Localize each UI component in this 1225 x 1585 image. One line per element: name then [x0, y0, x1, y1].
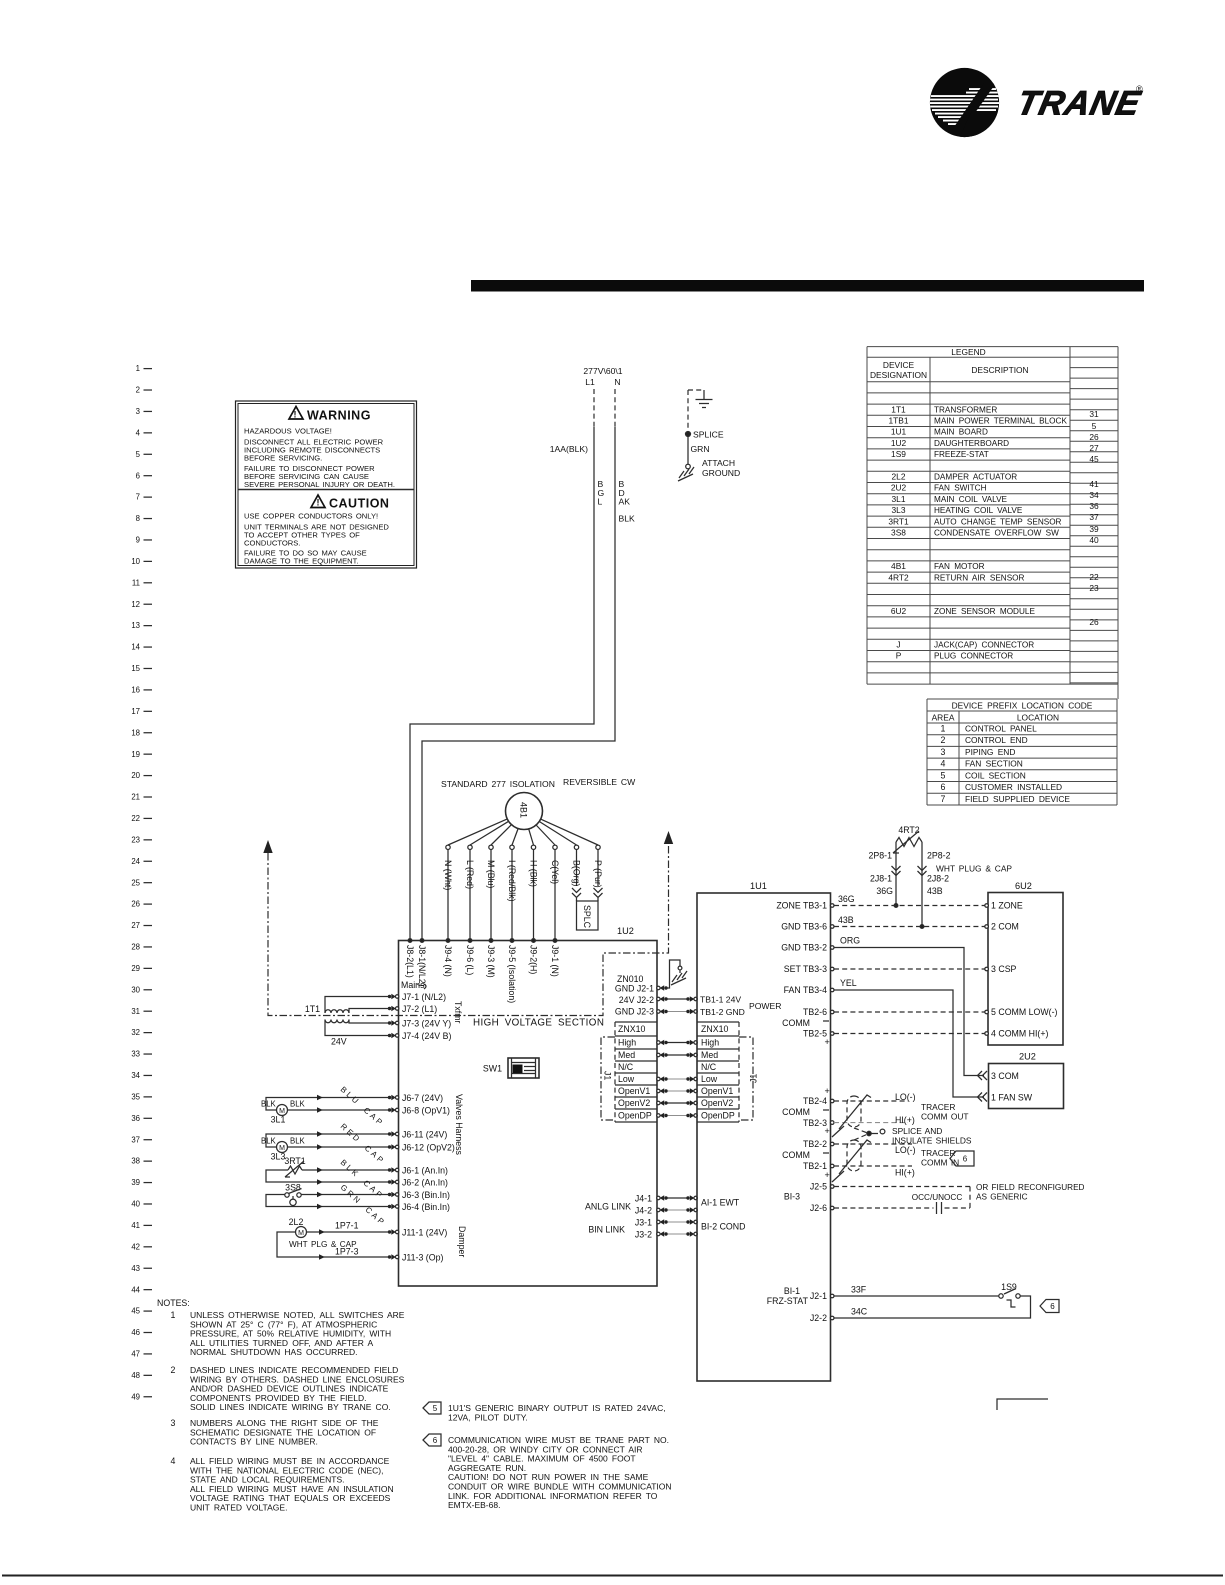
- svg-text:23: 23: [1089, 583, 1099, 593]
- svg-text:High: High: [618, 1038, 636, 1048]
- svg-text:4RT2: 4RT2: [888, 572, 909, 582]
- svg-text:43B: 43B: [838, 915, 854, 925]
- wire ORG TB3-2 to 2U2: [834, 936, 987, 1081]
- svg-text:PIPING END: PIPING END: [965, 747, 1015, 757]
- svg-text:32: 32: [131, 1028, 140, 1037]
- svg-text:BLK: BLK: [261, 1100, 277, 1109]
- svg-text:1TB1: 1TB1: [888, 416, 908, 426]
- svg-text:6: 6: [941, 782, 946, 792]
- svg-text:TB2-1: TB2-1: [803, 1161, 827, 1171]
- svg-text:HIGH VOLTAGE SECTION: HIGH VOLTAGE SECTION: [473, 1018, 604, 1029]
- svg-text:+: +: [825, 1086, 830, 1096]
- svg-text:J9-4 (N): J9-4 (N): [443, 945, 453, 977]
- svg-text:2L2: 2L2: [289, 1217, 304, 1227]
- wire YEL TB3-4 to 2U2: [834, 978, 987, 1102]
- svg-text:CUSTOMER INSTALLED: CUSTOMER INSTALLED: [965, 782, 1062, 792]
- J1 bracket right: [739, 1037, 759, 1120]
- svg-text:2: 2: [136, 386, 140, 395]
- svg-text:4 COMM HI(+): 4 COMM HI(+): [991, 1029, 1048, 1039]
- svg-text:J9-2(H): J9-2(H): [528, 945, 538, 974]
- svg-text:OR FIELD RECONFIGURED: OR FIELD RECONFIGURED: [976, 1183, 1085, 1192]
- svg-text:1: 1: [171, 1310, 176, 1320]
- svg-text:43: 43: [131, 1264, 140, 1273]
- svg-text:CONTROL PANEL: CONTROL PANEL: [965, 724, 1037, 734]
- svg-text:H (Blk): H (Blk): [528, 860, 538, 887]
- svg-text:HEATING COIL VALVE: HEATING COIL VALVE: [934, 506, 1023, 515]
- svg-text:NOTES:: NOTES:: [157, 1298, 190, 1308]
- svg-text:OpenV1: OpenV1: [618, 1086, 650, 1096]
- svg-text:40: 40: [1089, 535, 1099, 545]
- wire ZNX10 Med: [657, 1052, 698, 1057]
- svg-text:WHT PLUG & CAP: WHT PLUG & CAP: [936, 864, 1012, 874]
- main coil valve 3L1: [261, 1095, 390, 1125]
- svg-text:J6-2 (An.In): J6-2 (An.In): [402, 1177, 448, 1187]
- ground at J2-1: [657, 960, 687, 991]
- svg-text:26: 26: [1089, 617, 1099, 627]
- svg-text:DAMPER ACTUATOR: DAMPER ACTUATOR: [934, 473, 1017, 482]
- splice node: [686, 430, 724, 469]
- svg-text:37: 37: [131, 1135, 140, 1144]
- svg-text:J6-11 (24V): J6-11 (24V): [402, 1129, 447, 1139]
- svg-text:3L1: 3L1: [892, 494, 906, 504]
- wire J2-2 to TB1-1: [657, 996, 698, 1001]
- svg-text:Med: Med: [701, 1050, 718, 1060]
- svg-text:6: 6: [136, 471, 140, 480]
- svg-text:HAZARDOUS VOLTAGE!: HAZARDOUS VOLTAGE!: [244, 427, 332, 436]
- svg-text:6U2: 6U2: [891, 606, 907, 616]
- svg-text:12: 12: [131, 600, 140, 609]
- svg-text:43B: 43B: [927, 886, 943, 896]
- svg-text:FRZ-STAT: FRZ-STAT: [767, 1296, 809, 1306]
- svg-text:36G: 36G: [876, 886, 893, 896]
- svg-text:4: 4: [171, 1456, 176, 1466]
- legend table: [867, 347, 1118, 699]
- svg-text:46: 46: [131, 1328, 140, 1337]
- svg-text:L1: L1: [585, 377, 595, 387]
- wire label GRN CAP: [339, 1183, 388, 1228]
- svg-text:4: 4: [136, 428, 141, 437]
- svg-text:AUTO CHANGE TEMP SENSOR: AUTO CHANGE TEMP SENSOR: [934, 517, 1062, 526]
- svg-text:3: 3: [941, 747, 946, 757]
- svg-text:DAMAGE TO THE EQUIPMENT.: DAMAGE TO THE EQUIPMENT.: [244, 557, 359, 566]
- svg-text:CAUTION: CAUTION: [329, 497, 389, 511]
- damper actuator 2L2: [277, 1217, 390, 1260]
- svg-text:2U2: 2U2: [891, 483, 907, 493]
- svg-text:1T1: 1T1: [891, 404, 906, 414]
- svg-text:NORMAL SHUTDOWN HAS OCCURRED.: NORMAL SHUTDOWN HAS OCCURRED.: [190, 1347, 358, 1357]
- svg-text:OpenDP: OpenDP: [618, 1111, 652, 1121]
- svg-text:J6-1 (An.In): J6-1 (An.In): [402, 1165, 448, 1175]
- svg-text:SEVERE PERSONAL INJURY OR DEAT: SEVERE PERSONAL INJURY OR DEATH.: [244, 480, 395, 489]
- svg-text:23: 23: [131, 835, 140, 844]
- wire ZNX10 OpenDP: [657, 1113, 698, 1118]
- svg-text:9: 9: [136, 536, 140, 545]
- svg-text:3: 3: [171, 1418, 176, 1428]
- svg-text:4B1: 4B1: [891, 561, 906, 571]
- svg-text:6: 6: [433, 1436, 438, 1445]
- 1U2 right labels: [585, 974, 654, 1239]
- wire ZNX10 OpenV2: [657, 1100, 698, 1105]
- svg-text:JACK(CAP) CONNECTOR: JACK(CAP) CONNECTOR: [934, 641, 1034, 650]
- svg-text:2: 2: [941, 735, 946, 745]
- svg-text:TRACER: TRACER: [921, 1102, 955, 1112]
- svg-text:21: 21: [131, 793, 140, 802]
- wire ZNX10 OpenV1: [657, 1088, 698, 1093]
- svg-text:CONTROL END: CONTROL END: [965, 735, 1028, 745]
- svg-text:J4-1: J4-1: [635, 1193, 652, 1203]
- svg-text:1S9: 1S9: [1001, 1282, 1017, 1292]
- wire TB2-5 to 6U2 pin4: [834, 1033, 985, 1035]
- svg-text:+: +: [825, 1170, 830, 1180]
- svg-text:GND TB3-2: GND TB3-2: [781, 943, 827, 953]
- svg-text:LEGEND: LEGEND: [951, 347, 985, 357]
- wire TB2-6 to 6U2 pin5: [834, 1011, 985, 1013]
- svg-text:SOLID LINES INDICATE WIRING BY: SOLID LINES INDICATE WIRING BY TRANE CO.: [190, 1402, 391, 1412]
- svg-text:J6-8 (OpV1): J6-8 (OpV1): [402, 1105, 450, 1115]
- svg-text:J3-1: J3-1: [635, 1217, 652, 1227]
- svg-text:4B1: 4B1: [519, 802, 529, 818]
- svg-text:Med: Med: [618, 1050, 635, 1060]
- svg-text:1P7-1: 1P7-1: [335, 1221, 359, 1231]
- line number ruler: [131, 364, 152, 1401]
- svg-text:J9-3 (M): J9-3 (M): [486, 945, 496, 978]
- svg-text:16: 16: [131, 686, 140, 695]
- svg-text:15: 15: [131, 664, 140, 673]
- svg-text:BLK: BLK: [290, 1100, 306, 1109]
- svg-text:REVERSIBLE CW: REVERSIBLE CW: [563, 777, 636, 787]
- fan motor 4B1: [441, 777, 636, 830]
- ground splice branch: [688, 390, 704, 432]
- svg-text:DESIGNATION: DESIGNATION: [870, 370, 927, 380]
- J1 bracket left: [601, 1037, 615, 1120]
- title bar: [471, 280, 1144, 292]
- wire J4-1 to AI-1: [657, 1195, 698, 1200]
- svg-text:36: 36: [131, 1114, 140, 1123]
- svg-text:TB2-5: TB2-5: [803, 1029, 827, 1039]
- svg-text:COMM: COMM: [782, 1107, 810, 1117]
- svg-text:33: 33: [131, 1050, 140, 1059]
- svg-text:FAN MOTOR: FAN MOTOR: [934, 562, 985, 571]
- svg-text:COMM OUT: COMM OUT: [921, 1112, 969, 1122]
- svg-text:5 COMM LOW(-): 5 COMM LOW(-): [991, 1007, 1058, 1017]
- svg-text:OpenV2: OpenV2: [618, 1098, 650, 1108]
- svg-text:M: M: [298, 1230, 304, 1237]
- svg-text:1: 1: [941, 724, 946, 734]
- daughterboard 1U2: [399, 926, 658, 1286]
- svg-text:31: 31: [131, 1007, 140, 1016]
- svg-text:J7-4 (24V B): J7-4 (24V B): [402, 1031, 451, 1041]
- wire label BLU CAP: [339, 1085, 386, 1129]
- svg-text:39: 39: [131, 1178, 140, 1187]
- svg-text:J6-7 (24V): J6-7 (24V): [402, 1093, 443, 1103]
- svg-text:6: 6: [1050, 1302, 1055, 1311]
- svg-text:COIL SECTION: COIL SECTION: [965, 770, 1026, 780]
- svg-text:3 CSP: 3 CSP: [991, 964, 1017, 974]
- svg-text:J6-3 (Bin.In): J6-3 (Bin.In): [402, 1190, 450, 1200]
- svg-text:®: ®: [1136, 84, 1143, 94]
- svg-text:CONDENSATE OVERFLOW SW: CONDENSATE OVERFLOW SW: [934, 529, 1059, 538]
- svg-text:5: 5: [136, 450, 141, 459]
- svg-text:GND TB3-6: GND TB3-6: [781, 922, 827, 932]
- svg-text:!: !: [294, 410, 297, 420]
- svg-text:28: 28: [131, 943, 140, 952]
- svg-text:BI-3: BI-3: [784, 1192, 800, 1202]
- svg-text:19: 19: [131, 750, 140, 759]
- svg-text:COMM: COMM: [782, 1150, 810, 1160]
- svg-text:High: High: [701, 1038, 719, 1048]
- svg-text:UNIT RATED VOLTAGE.: UNIT RATED VOLTAGE.: [190, 1503, 287, 1513]
- svg-text:TRANE: TRANE: [1014, 85, 1144, 123]
- svg-text:Low: Low: [618, 1074, 635, 1084]
- svg-text:47: 47: [131, 1350, 140, 1359]
- svg-text:+: +: [825, 1037, 830, 1047]
- svg-text:MAIN BOARD: MAIN BOARD: [934, 428, 988, 437]
- svg-text:J7-2 (L1): J7-2 (L1): [402, 1004, 437, 1014]
- TRANE logo: [929, 68, 1144, 140]
- svg-text:N/C: N/C: [618, 1062, 634, 1072]
- main board 1U1: [697, 881, 831, 1381]
- svg-text:TB2-4: TB2-4: [803, 1096, 827, 1106]
- svg-text:17: 17: [131, 707, 140, 716]
- svg-text:J2-1: J2-1: [810, 1291, 827, 1301]
- svg-text:BEFORE SERVICING.: BEFORE SERVICING.: [244, 454, 322, 463]
- fan switch 2U2: [989, 1052, 1064, 1109]
- svg-text:LOCATION: LOCATION: [1017, 713, 1059, 723]
- svg-text:24: 24: [131, 857, 140, 866]
- tracer comm in shield: [832, 1140, 974, 1182]
- svg-text:FAN SWITCH: FAN SWITCH: [934, 484, 987, 493]
- wire SET TB3-3 to 6U2 pin3: [834, 968, 985, 970]
- svg-text:OpenV1: OpenV1: [701, 1086, 733, 1096]
- svg-text:J2-2: J2-2: [810, 1313, 827, 1323]
- svg-text:20: 20: [131, 771, 140, 780]
- svg-text:DEVICE: DEVICE: [883, 360, 915, 370]
- svg-text:SPLC: SPLC: [582, 905, 592, 929]
- svg-text:5: 5: [433, 1404, 438, 1413]
- dip switch SW1: [483, 1058, 539, 1078]
- heating coil valve 3L3: [261, 1131, 390, 1161]
- svg-text:ZN010: ZN010: [617, 974, 644, 984]
- svg-text:+: +: [825, 1126, 830, 1136]
- svg-text:4: 4: [941, 759, 946, 769]
- svg-text:J6-4 (Bin.In): J6-4 (Bin.In): [402, 1202, 450, 1212]
- svg-text:1S9: 1S9: [891, 449, 906, 459]
- wire J3-2 to BI-2: [657, 1231, 698, 1236]
- svg-text:J4-2: J4-2: [635, 1205, 652, 1215]
- svg-text:J7-1 (N/L2): J7-1 (N/L2): [402, 992, 446, 1002]
- svg-text:33F: 33F: [851, 1285, 867, 1295]
- svg-text:J1: J1: [749, 1074, 759, 1083]
- svg-text:TRACER: TRACER: [921, 1148, 955, 1158]
- svg-text:45: 45: [1089, 454, 1099, 464]
- svg-text:25: 25: [131, 878, 140, 887]
- net L1 power feed: [410, 366, 623, 938]
- svg-text:8: 8: [136, 514, 140, 523]
- svg-text:ZNX10: ZNX10: [618, 1024, 645, 1034]
- 1U2 left pin labels: [388, 980, 467, 1262]
- svg-text:WARNING: WARNING: [307, 409, 371, 423]
- svg-text:24V J2-2: 24V J2-2: [619, 995, 654, 1005]
- svg-text:ZONE SENSOR MODULE: ZONE SENSOR MODULE: [934, 607, 1035, 616]
- svg-text:J9-5 (Isolation): J9-5 (Isolation): [507, 945, 517, 1003]
- svg-text:P (Pur): P (Pur): [593, 860, 603, 888]
- svg-text:P: P: [896, 651, 902, 661]
- svg-text:1U2: 1U2: [891, 438, 907, 448]
- connector ZNX10 on 1U1: [697, 1022, 739, 1122]
- svg-text:40: 40: [131, 1200, 140, 1209]
- svg-text:USE COPPER CONDUCTORS ONLY!: USE COPPER CONDUCTORS ONLY!: [244, 512, 378, 521]
- net N power feed: [422, 389, 615, 938]
- svg-text:29: 29: [131, 964, 140, 973]
- svg-text:J3-2: J3-2: [635, 1229, 652, 1239]
- svg-text:L: L: [598, 497, 603, 507]
- svg-text:J9-1 (N): J9-1 (N): [550, 945, 560, 977]
- svg-text:1 ZONE: 1 ZONE: [991, 901, 1023, 911]
- svg-text:GND J2-1: GND J2-1: [615, 984, 654, 994]
- transformer 1T1: [305, 997, 390, 1047]
- svg-text:ATTACH: ATTACH: [702, 458, 735, 468]
- wire label RED CAP: [339, 1122, 387, 1167]
- svg-text:POWER: POWER: [749, 1001, 781, 1011]
- svg-text:3RT1: 3RT1: [888, 516, 909, 526]
- 1U1 left labels: [700, 994, 781, 1231]
- svg-text:277V\60\1: 277V\60\1: [583, 366, 622, 376]
- svg-text:M (Blu): M (Blu): [486, 860, 496, 888]
- svg-text:AK: AK: [619, 497, 631, 507]
- freeze stat 1S9 circuit: [834, 1282, 1059, 1318]
- caution label W2: [244, 495, 389, 566]
- svg-text:BIN LINK: BIN LINK: [588, 1225, 625, 1235]
- svg-text:3: 3: [136, 407, 140, 416]
- svg-text:31: 31: [1089, 409, 1099, 419]
- svg-text:LO(-): LO(-): [895, 1145, 916, 1155]
- svg-text:CONDUCTORS.: CONDUCTORS.: [244, 539, 300, 548]
- wire TB3-6 to 6U2 pin2: [834, 915, 985, 927]
- svg-text:J2-6: J2-6: [810, 1203, 827, 1213]
- svg-text:26: 26: [1089, 432, 1099, 442]
- svg-text:2P8-2: 2P8-2: [927, 851, 951, 861]
- svg-text:7: 7: [941, 794, 946, 804]
- svg-text:6U2: 6U2: [1015, 881, 1032, 891]
- svg-text:1U2: 1U2: [617, 926, 634, 936]
- svg-text:ZNX10: ZNX10: [701, 1024, 728, 1034]
- svg-text:37: 37: [1089, 512, 1099, 522]
- svg-text:GROUND: GROUND: [702, 468, 740, 478]
- wire ZNX10 High: [657, 1040, 698, 1045]
- svg-text:14: 14: [131, 643, 140, 652]
- svg-text:2 COM: 2 COM: [991, 922, 1019, 932]
- svg-text:PLUG CONNECTOR: PLUG CONNECTOR: [934, 652, 1013, 661]
- svg-text:30: 30: [131, 985, 140, 994]
- svg-text:41: 41: [1089, 479, 1099, 489]
- svg-text:ANLG LINK: ANLG LINK: [585, 1202, 631, 1212]
- svg-text:24V: 24V: [331, 1037, 347, 1047]
- svg-text:Damper: Damper: [457, 1226, 467, 1257]
- svg-text:STANDARD 277 ISOLATION: STANDARD 277 ISOLATION: [441, 779, 555, 789]
- svg-text:GND J2-3: GND J2-3: [615, 1007, 654, 1017]
- svg-text:OCC/UNOCC: OCC/UNOCC: [912, 1193, 963, 1202]
- svg-text:ORG: ORG: [840, 936, 860, 946]
- svg-text:J1: J1: [603, 1071, 613, 1080]
- svg-text:AREA: AREA: [932, 713, 955, 723]
- svg-text:1: 1: [136, 364, 140, 373]
- svg-text:3S8: 3S8: [891, 528, 906, 538]
- svg-text:TB1-1 24V: TB1-1 24V: [700, 994, 741, 1004]
- svg-text:BLK: BLK: [619, 514, 636, 524]
- svg-text:J11-1 (24V): J11-1 (24V): [402, 1227, 447, 1237]
- svg-text:DEVICE PREFIX LOCATION CODE: DEVICE PREFIX LOCATION CODE: [952, 701, 1093, 711]
- svg-text:OpenV2: OpenV2: [701, 1098, 733, 1108]
- svg-text:44: 44: [131, 1285, 140, 1294]
- occ/unocc input: [834, 1183, 1085, 1214]
- svg-text:L (Red): L (Red): [465, 860, 475, 889]
- svg-text:42: 42: [131, 1242, 140, 1251]
- svg-text:26: 26: [131, 900, 140, 909]
- wire color codes: [598, 479, 636, 524]
- svg-text:TB2-6: TB2-6: [803, 1007, 827, 1017]
- svg-text:BLK: BLK: [290, 1137, 306, 1146]
- high voltage section boundary: [263, 831, 673, 1016]
- bottom border: [2, 1575, 1223, 1577]
- svg-text:3S8: 3S8: [285, 1183, 301, 1193]
- motor lead wires: [443, 819, 603, 938]
- svg-text:6: 6: [963, 1155, 968, 1164]
- svg-text:SPLICE: SPLICE: [693, 430, 724, 440]
- svg-text:CONTACTS BY LINE NUMBER.: CONTACTS BY LINE NUMBER.: [190, 1437, 318, 1447]
- svg-text:OpenDP: OpenDP: [701, 1111, 735, 1121]
- wire TB3-1 to 6U2 pin1: [834, 894, 985, 906]
- svg-text:COMM: COMM: [782, 1018, 810, 1028]
- svg-text:EMTX-EB-68.: EMTX-EB-68.: [448, 1500, 500, 1510]
- 1U1 right pins: [776, 901, 834, 1323]
- svg-text:FAN TB3-4: FAN TB3-4: [784, 985, 827, 995]
- attach ground: [678, 458, 740, 481]
- svg-text:SET TB3-3: SET TB3-3: [784, 964, 827, 974]
- svg-text:11: 11: [132, 578, 140, 587]
- condensate overflow switch 3S8: [266, 1183, 390, 1210]
- connector ZNX10 on 1U2: [615, 1022, 657, 1122]
- svg-text:I (Red/Blk): I (Red/Blk): [507, 860, 517, 902]
- svg-text:48: 48: [131, 1371, 140, 1380]
- svg-text:HI(+): HI(+): [895, 1168, 915, 1178]
- svg-text:2U2: 2U2: [1019, 1052, 1036, 1062]
- svg-text:N (Wht): N (Wht): [443, 860, 453, 890]
- svg-text:18: 18: [131, 728, 140, 737]
- svg-text:2P8-1: 2P8-1: [869, 851, 893, 861]
- svg-text:22: 22: [1089, 572, 1099, 582]
- 1U2 top pins J8/J9: [405, 939, 560, 1004]
- svg-text:35: 35: [131, 1092, 140, 1101]
- svg-text:1T1: 1T1: [305, 1004, 320, 1014]
- svg-text:AS GENERIC: AS GENERIC: [976, 1193, 1028, 1202]
- svg-text:FREEZE-STAT: FREEZE-STAT: [934, 450, 989, 459]
- notes: [157, 1298, 405, 1513]
- svg-text:J11-3 (Op): J11-3 (Op): [402, 1252, 443, 1262]
- svg-text:MAIN POWER TERMINAL BLOCK: MAIN POWER TERMINAL BLOCK: [934, 417, 1067, 426]
- svg-text:34: 34: [131, 1071, 140, 1080]
- svg-text:N: N: [614, 377, 620, 387]
- svg-text:1U1: 1U1: [750, 881, 767, 891]
- svg-text:AI-1 EWT: AI-1 EWT: [701, 1198, 740, 1208]
- svg-text:BLK: BLK: [261, 1137, 277, 1146]
- svg-text:39: 39: [1089, 524, 1099, 534]
- svg-text:YEL: YEL: [840, 978, 857, 988]
- shield splice: [854, 1126, 972, 1146]
- svg-text:N/C: N/C: [701, 1062, 717, 1072]
- svg-text:2J8-1: 2J8-1: [870, 874, 892, 884]
- svg-text:38: 38: [131, 1157, 140, 1166]
- svg-text:22: 22: [131, 814, 140, 823]
